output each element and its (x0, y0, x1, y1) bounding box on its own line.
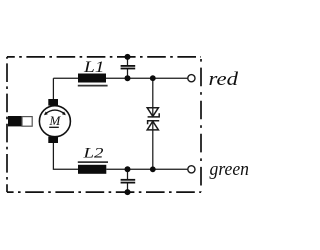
svg-text:green: green (210, 160, 250, 180)
svg-text:M: M (48, 113, 61, 128)
svg-text:L1: L1 (83, 59, 105, 76)
svg-text:L2: L2 (82, 145, 104, 162)
svg-text:red: red (209, 70, 239, 90)
